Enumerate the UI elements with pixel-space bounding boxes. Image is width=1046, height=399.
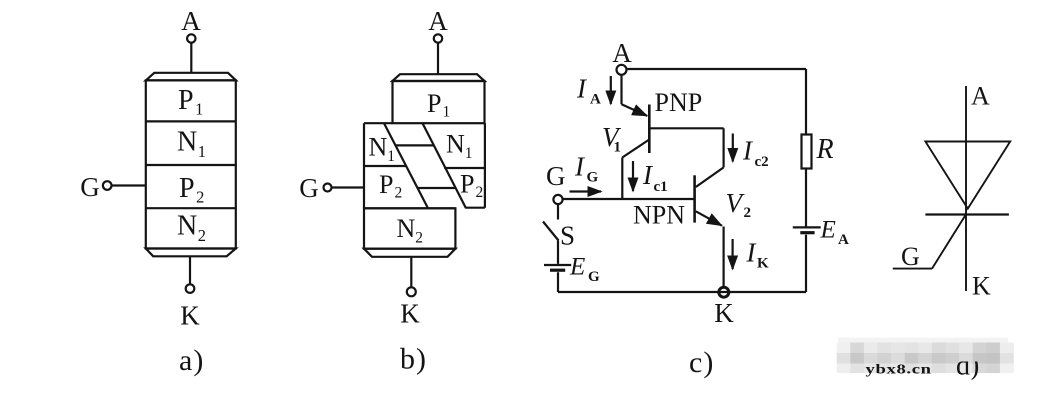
svg-text:G: G [587,170,599,186]
svg-text:G: G [588,269,600,285]
svg-text:K: K [714,298,734,328]
svg-text:N1: N1 [446,130,473,163]
svg-text:I: I [574,152,586,182]
svg-text:A: A [838,232,849,248]
svg-text:P1: P1 [178,85,203,119]
svg-text:G: G [80,172,100,202]
svg-text:2: 2 [744,205,752,221]
svg-text:N2: N2 [177,211,206,246]
svg-text:P2: P2 [179,173,204,207]
svg-text:I: I [746,238,758,268]
svg-text:I: I [576,74,588,104]
svg-text:G: G [901,242,920,271]
svg-text:A: A [590,92,601,108]
svg-text:K: K [972,272,991,301]
svg-text:G: G [546,161,566,191]
svg-text:K: K [400,299,420,329]
svg-text:S: S [560,221,575,251]
svg-text:A: A [181,6,201,36]
svg-text:ybx8.cn: ybx8.cn [866,361,932,377]
svg-text:A: A [971,82,990,111]
svg-text:G: G [299,173,319,203]
svg-text:P1: P1 [427,89,450,121]
svg-text:V: V [726,188,746,218]
svg-text:PNP: PNP [655,88,703,117]
svg-text:K: K [757,256,769,272]
svg-text:A: A [428,6,448,36]
svg-text:E: E [569,254,585,281]
svg-text:P2: P2 [460,170,483,202]
svg-text:P2: P2 [379,170,402,202]
svg-text:c2: c2 [755,154,769,170]
svg-text:A: A [612,38,632,68]
svg-text:N2: N2 [397,214,424,247]
svg-text:a): a) [179,344,204,377]
svg-text:R: R [816,134,834,165]
svg-text:NPN: NPN [633,201,685,230]
svg-text:c1: c1 [654,179,668,195]
svg-text:I: I [742,136,754,166]
svg-text:I: I [642,160,654,190]
svg-text:N1: N1 [177,127,206,162]
svg-text:1: 1 [614,140,622,156]
svg-text:b): b) [400,343,427,376]
svg-text:E: E [820,217,836,244]
svg-text:K: K [180,301,200,331]
svg-text:c): c) [689,346,714,379]
